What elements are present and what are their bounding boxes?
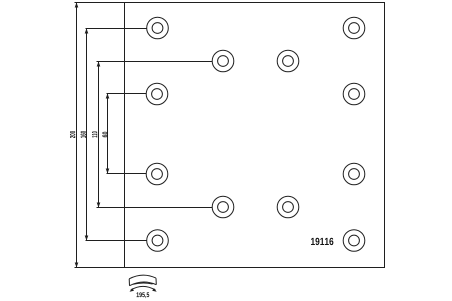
dimension line 200 [76, 3, 78, 268]
curvature symbol band right cap [155, 278, 157, 285]
rivet hole H1 (row A left) [147, 17, 169, 39]
curvature arrow head right [152, 288, 157, 292]
label 195,5 [137, 292, 150, 298]
rivet hole H2 (row A right) [343, 17, 365, 39]
label 60 [102, 132, 107, 138]
extension line bottom (y=267) [75, 267, 125, 269]
rivet hole H5 (row C left) [146, 83, 168, 105]
arrowhead dim200 up [75, 3, 79, 8]
arrowhead dim60 down [106, 169, 110, 174]
curvature symbol band bottom arc [130, 282, 157, 286]
rivet hole H9 (row E left-mid) [212, 196, 234, 218]
extension line top (y=2) [75, 2, 125, 4]
arrowhead dim60 up [106, 94, 110, 99]
curvature symbol band top arc [129, 275, 156, 279]
rivet hole H11 (row F left) [147, 230, 169, 252]
leader wire row F to hole H11 [86, 240, 147, 242]
label 160 [81, 131, 86, 138]
dimension line 160 [86, 29, 88, 241]
arrowhead dim110 down [97, 203, 101, 208]
leader wire row D to hole H7 [107, 173, 147, 175]
arrowhead dim200 down [75, 263, 79, 268]
rivet hole H3 (row B left-mid) [212, 50, 234, 72]
arrowhead dim110 up [97, 62, 101, 67]
curvature symbol inner arc [133, 283, 153, 284]
label 110 [92, 131, 97, 137]
rivet hole H4 (row B right-mid) [277, 50, 299, 72]
label 200 [70, 131, 75, 138]
curvature arrow arc [131, 286, 156, 290]
rivet hole H7 (row D left) [146, 163, 168, 185]
leader wire row B to hole H3 [97, 61, 213, 63]
rivet hole H12 (row F right) [343, 230, 365, 252]
arrowhead dim160 up [85, 29, 89, 34]
curvature symbol band left cap [128, 279, 130, 286]
dimension line 60 [107, 94, 109, 174]
arrowhead dim160 down [85, 236, 89, 241]
brake lining plate outline [125, 3, 385, 268]
part number 19116 [311, 238, 333, 245]
dimension line 110 [98, 62, 100, 208]
rivet hole H8 (row D right) [343, 163, 365, 185]
leader wire row E to hole H9 [97, 207, 213, 209]
leader wire row A to hole H1 [86, 28, 147, 30]
rivet hole H10 (row E right-mid) [277, 196, 299, 218]
leader wire row C to hole H5 [107, 93, 147, 95]
curvature arrow head left [130, 288, 135, 292]
rivet hole H6 (row C right) [343, 83, 365, 105]
